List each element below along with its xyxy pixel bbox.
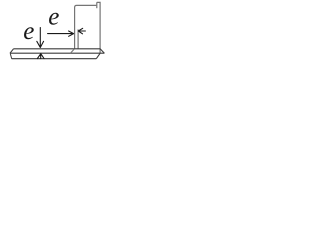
inner sheet edge: [77, 29, 79, 49]
plate bottom front edge: [12, 58, 97, 60]
profile seam lip: [96, 2, 98, 8]
profile top right and right wall: [97, 2, 100, 53]
down arrow: [37, 28, 44, 48]
plate right bottom diagonal: [96, 53, 100, 58]
svg-text:e: e: [23, 18, 34, 45]
wall foot tick: [71, 49, 75, 53]
up arrow: [37, 54, 44, 59]
svg-text:e: e: [48, 4, 59, 31]
profile left wall and top flange: [75, 5, 97, 49]
gap arrow pointing left: [78, 28, 85, 34]
plate left break diagonal: [10, 49, 14, 53]
plate top rear edge: [14, 48, 101, 50]
plate top front edge: [10, 52, 104, 54]
plate right top diagonal: [100, 49, 104, 53]
plate left lower tick: [10, 53, 12, 59]
gap arrow pointing right: [48, 31, 74, 36]
